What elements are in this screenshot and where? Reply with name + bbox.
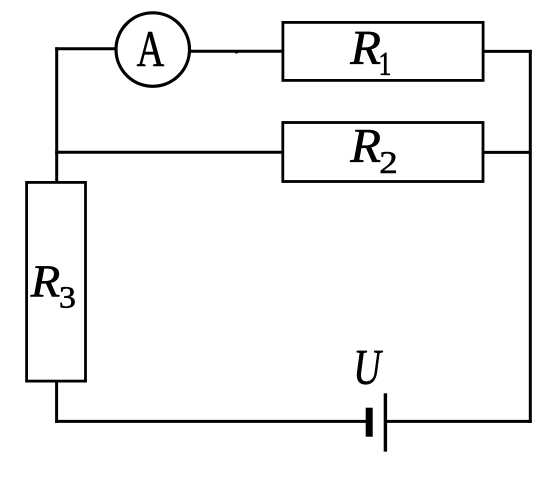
ammeter label A [137,32,164,66]
wire: bottom horizontal from battery positive plate to bottom-right corner [387,420,532,423]
label R2 [350,130,396,173]
resistor R3 (vertical box) [27,182,86,381]
label R3 [30,266,74,307]
wire: R1 right to top-right corner [483,50,532,53]
wire: left vertical rail from top-left corner down to R3 top [55,47,58,184]
node: connector junction dot on ammeter-R1 wire [235,50,238,53]
battery U: negative plate (short thick bar) [366,408,373,437]
resistor R1 (box) [283,22,483,80]
wire: right vertical rail from top-right corner to bottom-right corner [529,50,532,423]
label U [357,351,383,384]
wire: ammeter right terminal to R1 left [189,50,283,53]
ammeter A (circle symbol) [116,13,190,87]
wire: top-left horizontal from left rail to ammeter left terminal [55,47,115,50]
label R1 [350,32,390,75]
battery U: positive plate (long thin bar) [384,393,387,451]
wire: R3 bottom to bottom-left corner [55,380,58,423]
resistor R2 (box) [283,123,483,182]
wire: bottom horizontal from bottom-left corner to battery negative plate [55,420,366,423]
wire: R2 right to right rail (T junction) [483,151,530,154]
wire: R2 row horizontal from left rail to R2 left [55,151,284,154]
